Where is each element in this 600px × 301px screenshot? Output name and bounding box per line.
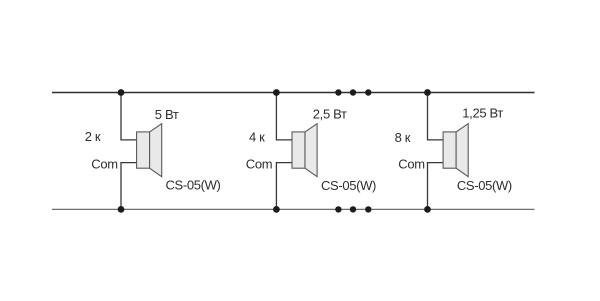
svg-text:Com: Com <box>91 156 117 171</box>
node: continuation dots bottom bus <box>335 206 371 212</box>
junction: bottom bus / LS3 <box>424 206 431 213</box>
junction: top bus / LS2 <box>273 89 280 96</box>
wire: LS2 bottom lead (Com terminal to bus) <box>276 163 292 210</box>
junction: top bus / LS3 <box>424 89 431 96</box>
junction: top bus / LS1 <box>118 89 125 96</box>
svg-text:4 к: 4 к <box>249 130 265 145</box>
wire: LS3 bottom lead (Com terminal to bus) <box>428 163 444 210</box>
speaker LS3 (CS-05(W)) <box>443 124 468 177</box>
node: continuation dots top bus <box>335 89 371 95</box>
junction: bottom bus / LS2 <box>273 206 280 213</box>
wire: top bus (plus rail) <box>52 92 535 94</box>
wire: LS1 top lead (bus to terminal) <box>121 93 137 140</box>
svg-text:8 к: 8 к <box>395 130 411 145</box>
svg-text:CS-05(W): CS-05(W) <box>321 178 376 193</box>
svg-text:2 к: 2 к <box>85 129 101 144</box>
svg-text:1,25 Вт: 1,25 Вт <box>462 106 503 121</box>
wire: bottom bus (common rail) <box>52 208 535 210</box>
wire: LS3 top lead (bus to terminal) <box>428 93 444 140</box>
svg-text:Com: Com <box>398 157 424 172</box>
speaker LS1 (CS-05(W)) <box>137 124 162 177</box>
wire: LS2 top lead (bus to terminal) <box>276 93 292 140</box>
svg-text:Com: Com <box>246 157 272 172</box>
svg-text:5 Вт: 5 Вт <box>155 107 179 122</box>
wire: LS1 bottom lead (Com terminal to bus) <box>121 163 137 210</box>
svg-text:CS-05(W): CS-05(W) <box>457 178 512 193</box>
junction: bottom bus / LS1 <box>118 206 125 213</box>
svg-text:CS-05(W): CS-05(W) <box>166 178 221 193</box>
speaker LS2 (CS-05(W)) <box>292 124 317 177</box>
svg-text:2,5 Вт: 2,5 Вт <box>313 106 347 121</box>
